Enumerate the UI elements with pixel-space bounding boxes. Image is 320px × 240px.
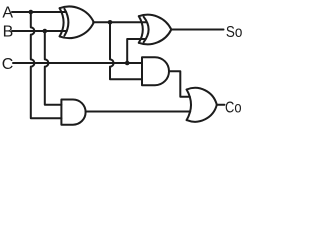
svg-text:A: A [2, 5, 13, 22]
wire C input [13, 62, 142, 64]
or gate U5 (carry) [187, 88, 217, 122]
junction dot on C line [125, 61, 130, 66]
wire B input [12, 30, 67, 32]
wire U3 output to U5 top input [169, 71, 190, 97]
xor gate U2 (sum) [139, 15, 172, 45]
junction dot on U1 output line [108, 20, 113, 25]
wire U4 output to U5 bottom input [86, 111, 191, 113]
wire C branch vertical up to U2 bottom input [127, 39, 145, 63]
and gate U3 ((A xor B) and C) [142, 57, 169, 85]
wire U1-output branch vertical with hop over C to U3 bottom input [110, 22, 142, 79]
junction dot on A line [29, 10, 34, 15]
wire U5 output to Co [217, 104, 225, 106]
svg-text:Co: Co [225, 99, 242, 116]
svg-text:C: C [2, 56, 14, 73]
xor gate U1 (A xor B) [60, 7, 94, 39]
and gate U4 (A and B) [61, 100, 85, 125]
svg-text:So: So [226, 24, 243, 41]
wire U1 output to U2 top input [93, 21, 146, 23]
wire A branch vertical with hops over B and C to U4 bottom input [31, 12, 62, 118]
wire A input [12, 11, 66, 13]
svg-text:B: B [3, 24, 14, 41]
junction dot on B line [43, 29, 48, 34]
wire U2 output to So [171, 29, 223, 31]
wire B branch vertical with hop over C to U4 top input [45, 31, 62, 105]
